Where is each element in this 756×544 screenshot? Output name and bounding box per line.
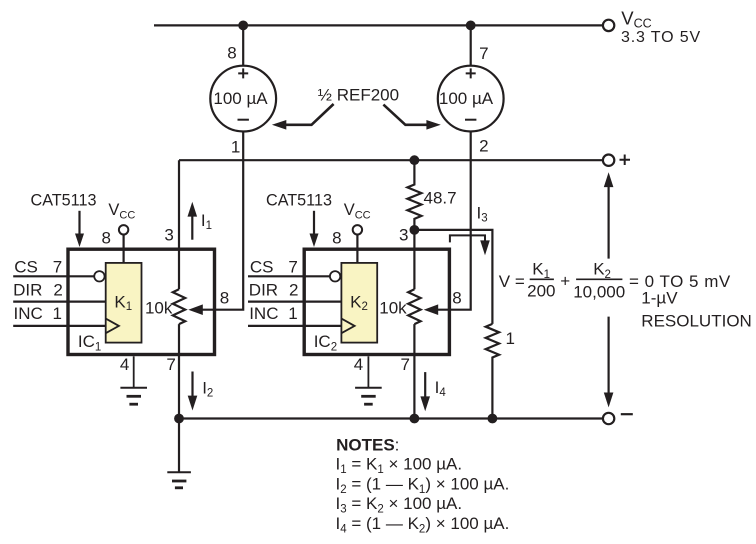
svg-text:1-µV: 1-µV <box>641 288 678 307</box>
svg-text:V =: V = <box>499 272 525 291</box>
node junction dot bottom rail ground <box>174 414 184 424</box>
wire node3 to 1ohm <box>414 230 492 324</box>
svg-text:10k: 10k <box>145 299 173 318</box>
wire CS1 output down to wiper row <box>202 132 244 310</box>
CAT5113 pointer arrow IC2 <box>313 211 315 235</box>
svg-text:I3 = K2 × 100 µA.: I3 = K2 × 100 µA. <box>336 494 463 516</box>
svg-text:RESOLUTION: RESOLUTION <box>641 312 752 331</box>
node junction dot 48.7 top <box>410 155 420 165</box>
svg-text:CAT5113: CAT5113 <box>31 191 97 209</box>
svg-text:K1: K1 <box>532 260 550 281</box>
svg-text:8: 8 <box>220 289 229 308</box>
IC1 pin4 ground stub <box>133 356 135 387</box>
node junction dot bottom rail IC2 pin7 <box>410 414 420 424</box>
IC2 pin4 ground stub <box>367 356 369 387</box>
resistor 48.7 <box>407 160 421 230</box>
wire node plus rail <box>179 159 603 161</box>
wire CS2 output down to wiper row <box>437 132 471 310</box>
svg-text:CS: CS <box>14 258 38 277</box>
svg-text:1: 1 <box>53 304 62 323</box>
IC1 box <box>68 249 215 354</box>
svg-text:100 µA: 100 µA <box>439 89 494 108</box>
IC1 INC input wire <box>13 325 106 327</box>
IC1 CS bubble <box>94 271 104 281</box>
IC1 Vcc terminal <box>119 225 128 234</box>
IC2 box <box>304 249 449 354</box>
svg-text:8: 8 <box>332 228 341 247</box>
node junction dot node3 <box>410 225 420 235</box>
svg-text:3: 3 <box>399 226 408 245</box>
wire minus rail bottom <box>179 417 603 419</box>
ground system (below minus rail) <box>167 419 191 488</box>
svg-text:2: 2 <box>479 137 488 156</box>
svg-text:INC: INC <box>249 304 278 323</box>
node junction dot top rail left <box>238 21 248 31</box>
potentiometer 10k IC2 <box>408 289 420 324</box>
IC1 K1 yellow block <box>106 263 142 343</box>
svg-text:VCC: VCC <box>108 201 135 222</box>
IC2 wiper arrowhead <box>424 304 439 315</box>
IC2 clock triangle <box>341 319 354 334</box>
IC1 wiper arrowhead <box>188 304 203 315</box>
output plus sign <box>620 155 631 166</box>
current annotation arrow I2 <box>191 372 193 397</box>
output range arrow lower segment <box>607 317 609 393</box>
svg-text:CS: CS <box>250 258 274 277</box>
svg-text:8: 8 <box>227 43 236 62</box>
IC1 clock triangle <box>106 319 119 334</box>
output range arrow upper segment <box>607 186 609 259</box>
IC2 potentiometer wire pin3 top <box>413 230 415 289</box>
equation fraction bar K1/200 <box>530 278 554 280</box>
current source I1 100uA <box>210 66 276 132</box>
svg-text:48.7: 48.7 <box>424 189 457 208</box>
node junction dot top rail right <box>466 21 476 31</box>
IC2 pin4 ground symbol <box>355 388 382 404</box>
svg-text:10,000: 10,000 <box>573 282 625 301</box>
svg-text:1: 1 <box>231 138 240 157</box>
IC2 Vcc terminal <box>353 225 362 234</box>
svg-text:3: 3 <box>164 226 173 245</box>
svg-text:DIR: DIR <box>13 281 42 300</box>
svg-text:8: 8 <box>102 228 111 247</box>
svg-text:½ REF200: ½ REF200 <box>318 85 399 104</box>
svg-text:DIR: DIR <box>249 281 278 300</box>
svg-text:VCC: VCC <box>621 8 651 31</box>
svg-text:2: 2 <box>53 281 62 300</box>
svg-text:K2: K2 <box>593 260 611 281</box>
svg-text:3.3 TO 5V: 3.3 TO 5V <box>621 29 701 46</box>
svg-text:I1: I1 <box>201 211 212 232</box>
IC2 CS input wire <box>248 275 330 277</box>
svg-text:I4 = (1 — K2) × 100 µA.: I4 = (1 — K2) × 100 µA. <box>336 514 510 536</box>
svg-text:IC1: IC1 <box>78 332 101 354</box>
svg-text:VCC: VCC <box>344 201 371 222</box>
current annotation arrow I3 (elbow) <box>450 235 485 242</box>
svg-text:I3: I3 <box>477 203 488 224</box>
terminal Vcc <box>603 20 614 31</box>
IC1 DIR input wire <box>13 301 106 303</box>
IC2 INC input wire <box>248 325 341 327</box>
IC2 Vcc pin8 wire <box>356 235 358 263</box>
IC1 Vcc pin8 wire <box>122 235 124 263</box>
resistor 1 ohm <box>486 324 499 419</box>
wire CS1 pin8 to rail <box>242 25 244 65</box>
svg-text:7: 7 <box>479 44 488 63</box>
svg-text:INC: INC <box>14 304 43 323</box>
svg-text:7: 7 <box>288 258 297 277</box>
REF200 callout arrow right <box>383 105 427 125</box>
IC2 DIR input wire <box>248 301 341 303</box>
svg-text:7: 7 <box>401 355 410 374</box>
svg-text:2: 2 <box>289 281 298 300</box>
svg-text:IC2: IC2 <box>314 332 337 354</box>
current annotation arrow I4 <box>424 372 426 397</box>
REF200 callout arrow left <box>286 104 334 125</box>
potentiometer 10k IC1 <box>173 289 185 324</box>
node junction dot bottom rail 1ohm <box>488 414 498 424</box>
svg-text:I4: I4 <box>435 378 447 399</box>
IC2 K2 yellow block <box>341 263 377 343</box>
wire CS2 pin7 to rail <box>470 25 472 65</box>
svg-text:7: 7 <box>53 258 62 277</box>
svg-text:I1 = K1 × 100 µA.: I1 = K1 × 100 µA. <box>336 455 463 477</box>
svg-text:I2: I2 <box>202 379 213 400</box>
svg-text:100 µA: 100 µA <box>213 89 268 108</box>
IC1 potentiometer wire pin7 bottom <box>178 324 180 418</box>
svg-text:1: 1 <box>506 329 515 348</box>
IC1 pin4 ground symbol <box>120 388 147 404</box>
svg-text:4: 4 <box>120 355 129 374</box>
svg-text:4: 4 <box>354 355 363 374</box>
svg-text:7: 7 <box>166 355 175 374</box>
svg-text:CAT5113: CAT5113 <box>266 191 332 209</box>
svg-text:10k: 10k <box>379 299 407 318</box>
svg-text:+: + <box>560 271 570 290</box>
current source I2 100uA <box>438 66 504 132</box>
IC2 potentiometer wire pin7 bottom <box>413 324 415 418</box>
svg-text:200: 200 <box>527 281 555 300</box>
terminal minus output <box>603 413 614 424</box>
equation fraction bar K2/10000 <box>576 278 622 280</box>
svg-text:I2 = (1 — K1) × 100 µA.: I2 = (1 — K1) × 100 µA. <box>336 474 510 496</box>
svg-text:NOTES:: NOTES: <box>336 436 399 455</box>
wire top Vcc rail <box>154 24 602 26</box>
svg-text:1: 1 <box>288 304 297 323</box>
IC1 potentiometer wire pin3 top <box>178 160 180 289</box>
current annotation arrow I1 <box>191 216 193 240</box>
terminal plus output <box>603 155 614 166</box>
CAT5113 pointer arrow IC1 <box>78 211 80 235</box>
svg-text:8: 8 <box>452 289 461 308</box>
IC1 CS input wire <box>13 275 94 277</box>
IC2 CS bubble <box>330 271 340 281</box>
output minus sign <box>621 413 633 415</box>
